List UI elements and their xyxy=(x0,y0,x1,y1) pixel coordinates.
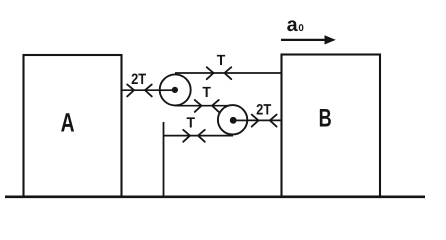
svg-text:a: a xyxy=(287,14,299,36)
svg-text:0: 0 xyxy=(298,23,304,34)
svg-text:B: B xyxy=(319,104,332,132)
svg-text:A: A xyxy=(61,108,75,138)
svg-text:T: T xyxy=(202,85,211,101)
svg-text:2T: 2T xyxy=(131,71,146,88)
svg-text:2T: 2T xyxy=(256,101,271,118)
svg-text:T: T xyxy=(187,116,196,132)
svg-text:T: T xyxy=(217,53,226,69)
